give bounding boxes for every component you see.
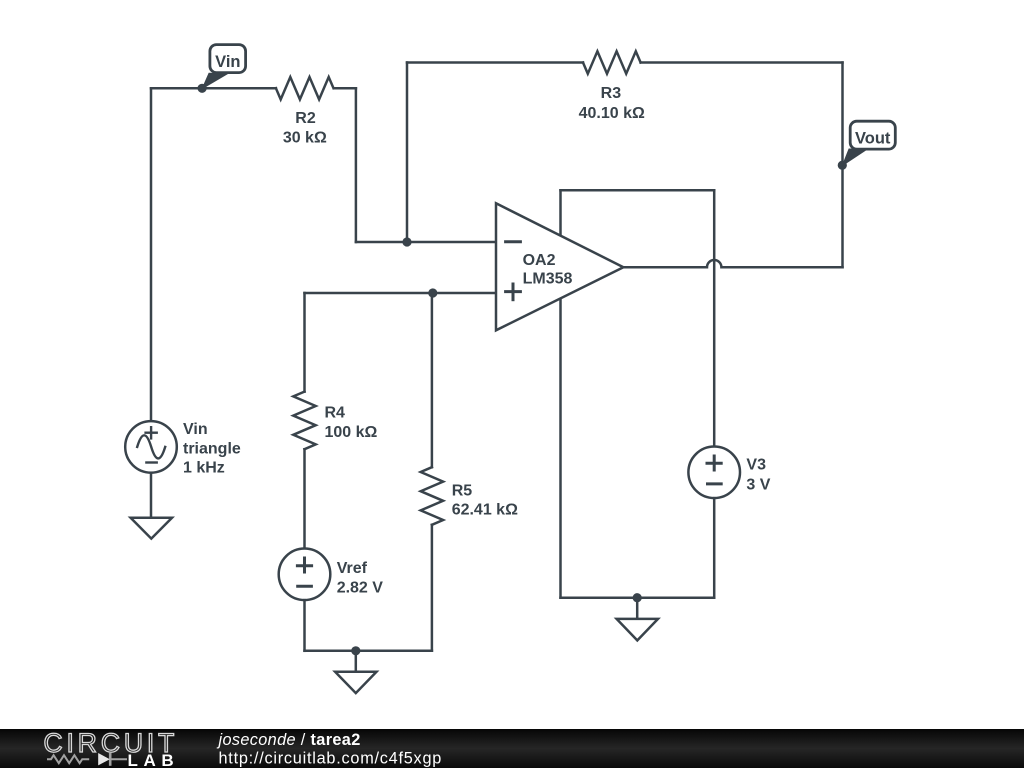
wire bbox=[303, 293, 306, 392]
svg-text:1 kHz: 1 kHz bbox=[183, 460, 225, 477]
svg-text:http://circuitlab.com/c4f5xgp: http://circuitlab.com/c4f5xgp bbox=[219, 750, 443, 768]
label R3 value bbox=[579, 85, 645, 122]
svg-text:100 kΩ: 100 kΩ bbox=[325, 424, 378, 441]
wire bbox=[356, 241, 496, 244]
wire with hop over vertical bbox=[623, 260, 842, 267]
svg-text:triangle: triangle bbox=[183, 441, 241, 458]
resistor R4 bbox=[293, 392, 315, 450]
op-amp minus input symbol bbox=[504, 240, 522, 243]
logo resistor-diode squiggle bbox=[47, 753, 127, 766]
resistor R2 bbox=[276, 77, 334, 99]
wire bbox=[407, 61, 583, 64]
wire bbox=[305, 292, 497, 295]
svg-text:Vin: Vin bbox=[215, 53, 240, 71]
wire bbox=[150, 88, 153, 421]
op-amp power pin vertical bbox=[559, 190, 562, 598]
wire bbox=[355, 88, 358, 242]
label R5 value bbox=[452, 483, 518, 519]
wire bbox=[406, 63, 409, 243]
svg-text:OA2: OA2 bbox=[523, 252, 556, 269]
label R4 value bbox=[325, 404, 378, 441]
svg-text:3 V: 3 V bbox=[746, 477, 770, 494]
svg-text:Vout: Vout bbox=[855, 130, 891, 148]
svg-text:LAB: LAB bbox=[128, 751, 180, 768]
wire bbox=[305, 650, 432, 653]
wire bbox=[303, 449, 306, 549]
svg-text:R2: R2 bbox=[295, 110, 316, 127]
node dot non-inverting input bbox=[428, 288, 437, 297]
wire bbox=[561, 189, 715, 192]
svg-text:40.10 kΩ: 40.10 kΩ bbox=[579, 105, 645, 122]
label Vref value bbox=[337, 560, 384, 596]
svg-text:Vref: Vref bbox=[337, 560, 368, 577]
node dot Vout bbox=[838, 161, 847, 170]
resistor R3 bbox=[583, 51, 641, 73]
svg-text:joseconde / tarea2: joseconde / tarea2 bbox=[217, 731, 361, 749]
node dot V3 ground bbox=[633, 593, 642, 602]
svg-text:30 kΩ: 30 kΩ bbox=[283, 130, 327, 147]
node dot Vref ground bbox=[351, 646, 360, 655]
op-amp U OA2 triangle bbox=[496, 203, 623, 330]
wire bbox=[334, 87, 356, 90]
svg-text:V3: V3 bbox=[746, 456, 766, 473]
svg-text:2.82 V: 2.82 V bbox=[337, 579, 384, 596]
resistor R5 bbox=[421, 467, 443, 525]
op-amp plus input symbol bbox=[504, 290, 522, 293]
wire bbox=[841, 63, 844, 268]
wire bbox=[713, 190, 716, 446]
node dot inverting input bbox=[402, 237, 411, 246]
wire bbox=[431, 293, 434, 467]
wire bbox=[561, 596, 715, 599]
svg-text:R4: R4 bbox=[325, 404, 346, 421]
node dot Vin bbox=[198, 84, 207, 93]
voltage source V3 bbox=[688, 447, 740, 499]
svg-text:62.41 kΩ: 62.41 kΩ bbox=[452, 502, 518, 519]
flag Vin bbox=[202, 73, 227, 88]
svg-text:R5: R5 bbox=[452, 483, 473, 500]
label OA2 LM358 bbox=[523, 252, 573, 287]
ground bbox=[131, 518, 172, 539]
label V3 value bbox=[746, 456, 770, 493]
svg-text:LM358: LM358 bbox=[523, 271, 573, 288]
label R2 value bbox=[283, 110, 327, 147]
svg-text:R3: R3 bbox=[601, 85, 622, 102]
logo diode triangle bbox=[98, 753, 110, 765]
wire bbox=[303, 600, 306, 651]
footer bar bbox=[0, 729, 1024, 768]
svg-text:Vin: Vin bbox=[183, 421, 208, 438]
wire bbox=[150, 473, 153, 518]
voltage source Vref bbox=[279, 549, 331, 601]
flag Vout bbox=[843, 149, 868, 166]
voltage source Vin (triangle wave src) bbox=[125, 421, 177, 473]
wire bbox=[713, 498, 716, 598]
label Vin source bbox=[183, 421, 241, 477]
wire bbox=[151, 87, 276, 90]
ground bbox=[335, 651, 376, 693]
ground bbox=[617, 598, 658, 641]
wire bbox=[641, 61, 843, 64]
wire bbox=[431, 525, 434, 651]
